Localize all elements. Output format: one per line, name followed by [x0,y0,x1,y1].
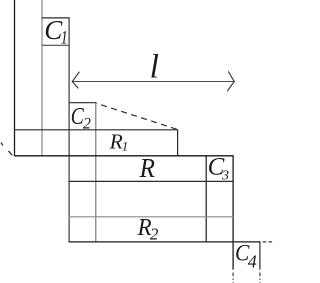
wire: left outer vertical plate line [14,0,16,156]
svg-text:3: 3 [221,169,229,184]
svg-text:1: 1 [61,27,68,48]
wire: dash-dot continuation of C3 right edge below C4 [232,273,234,283]
svg-text:l: l [150,49,159,86]
wire: dash-dot continuation of C4 right edge [259,273,261,283]
svg-text:R: R [139,152,155,183]
wire: bottom horizontal line / top of C4 box [69,241,261,243]
wire: right edge of C4 box [259,242,261,270]
wire: top edge of C2 box [69,102,97,104]
wire: dashed diagonal from C2 corner to R1 corner [97,103,177,129]
wire: horizontal line at top of R1 row [14,129,178,131]
wire: left edge of C3 column [205,156,207,242]
wire: dash-dot leader at lower left pointing to corner (segment 1) [1,143,3,146]
svg-text:1: 1 [122,139,129,154]
node: right arrowhead of dimension l [227,71,234,91]
node: left arrowhead of dimension l [72,72,79,89]
wire: long horizontal line at top of R row [14,155,234,157]
wire: right edge of C3 column [232,156,234,270]
svg-text:2: 2 [83,116,91,133]
svg-text:4: 4 [248,251,257,271]
wire: third vertical line (right edge of C1 column) [68,18,70,242]
wire: horizontal line above R2 row [69,216,234,218]
wire: second vertical plate line [41,0,43,156]
wire: right edge of R1 box [177,130,179,156]
wire: horizontal line below R row [69,180,234,182]
wire: dimension arrow shaft for length l [73,81,234,83]
wire: fourth vertical line (right edge of C2 column) [95,103,97,242]
wire: bottom edge of C1 box [42,44,70,46]
svg-text:R: R [109,129,123,153]
svg-text:2: 2 [150,225,159,244]
wire: dashed continuation of bottom line right of C4 [263,241,273,243]
wire: top edge of C1 box [42,17,70,19]
wire: dash-dot leader at lower left pointing to corner (segment 2) [9,151,13,155]
